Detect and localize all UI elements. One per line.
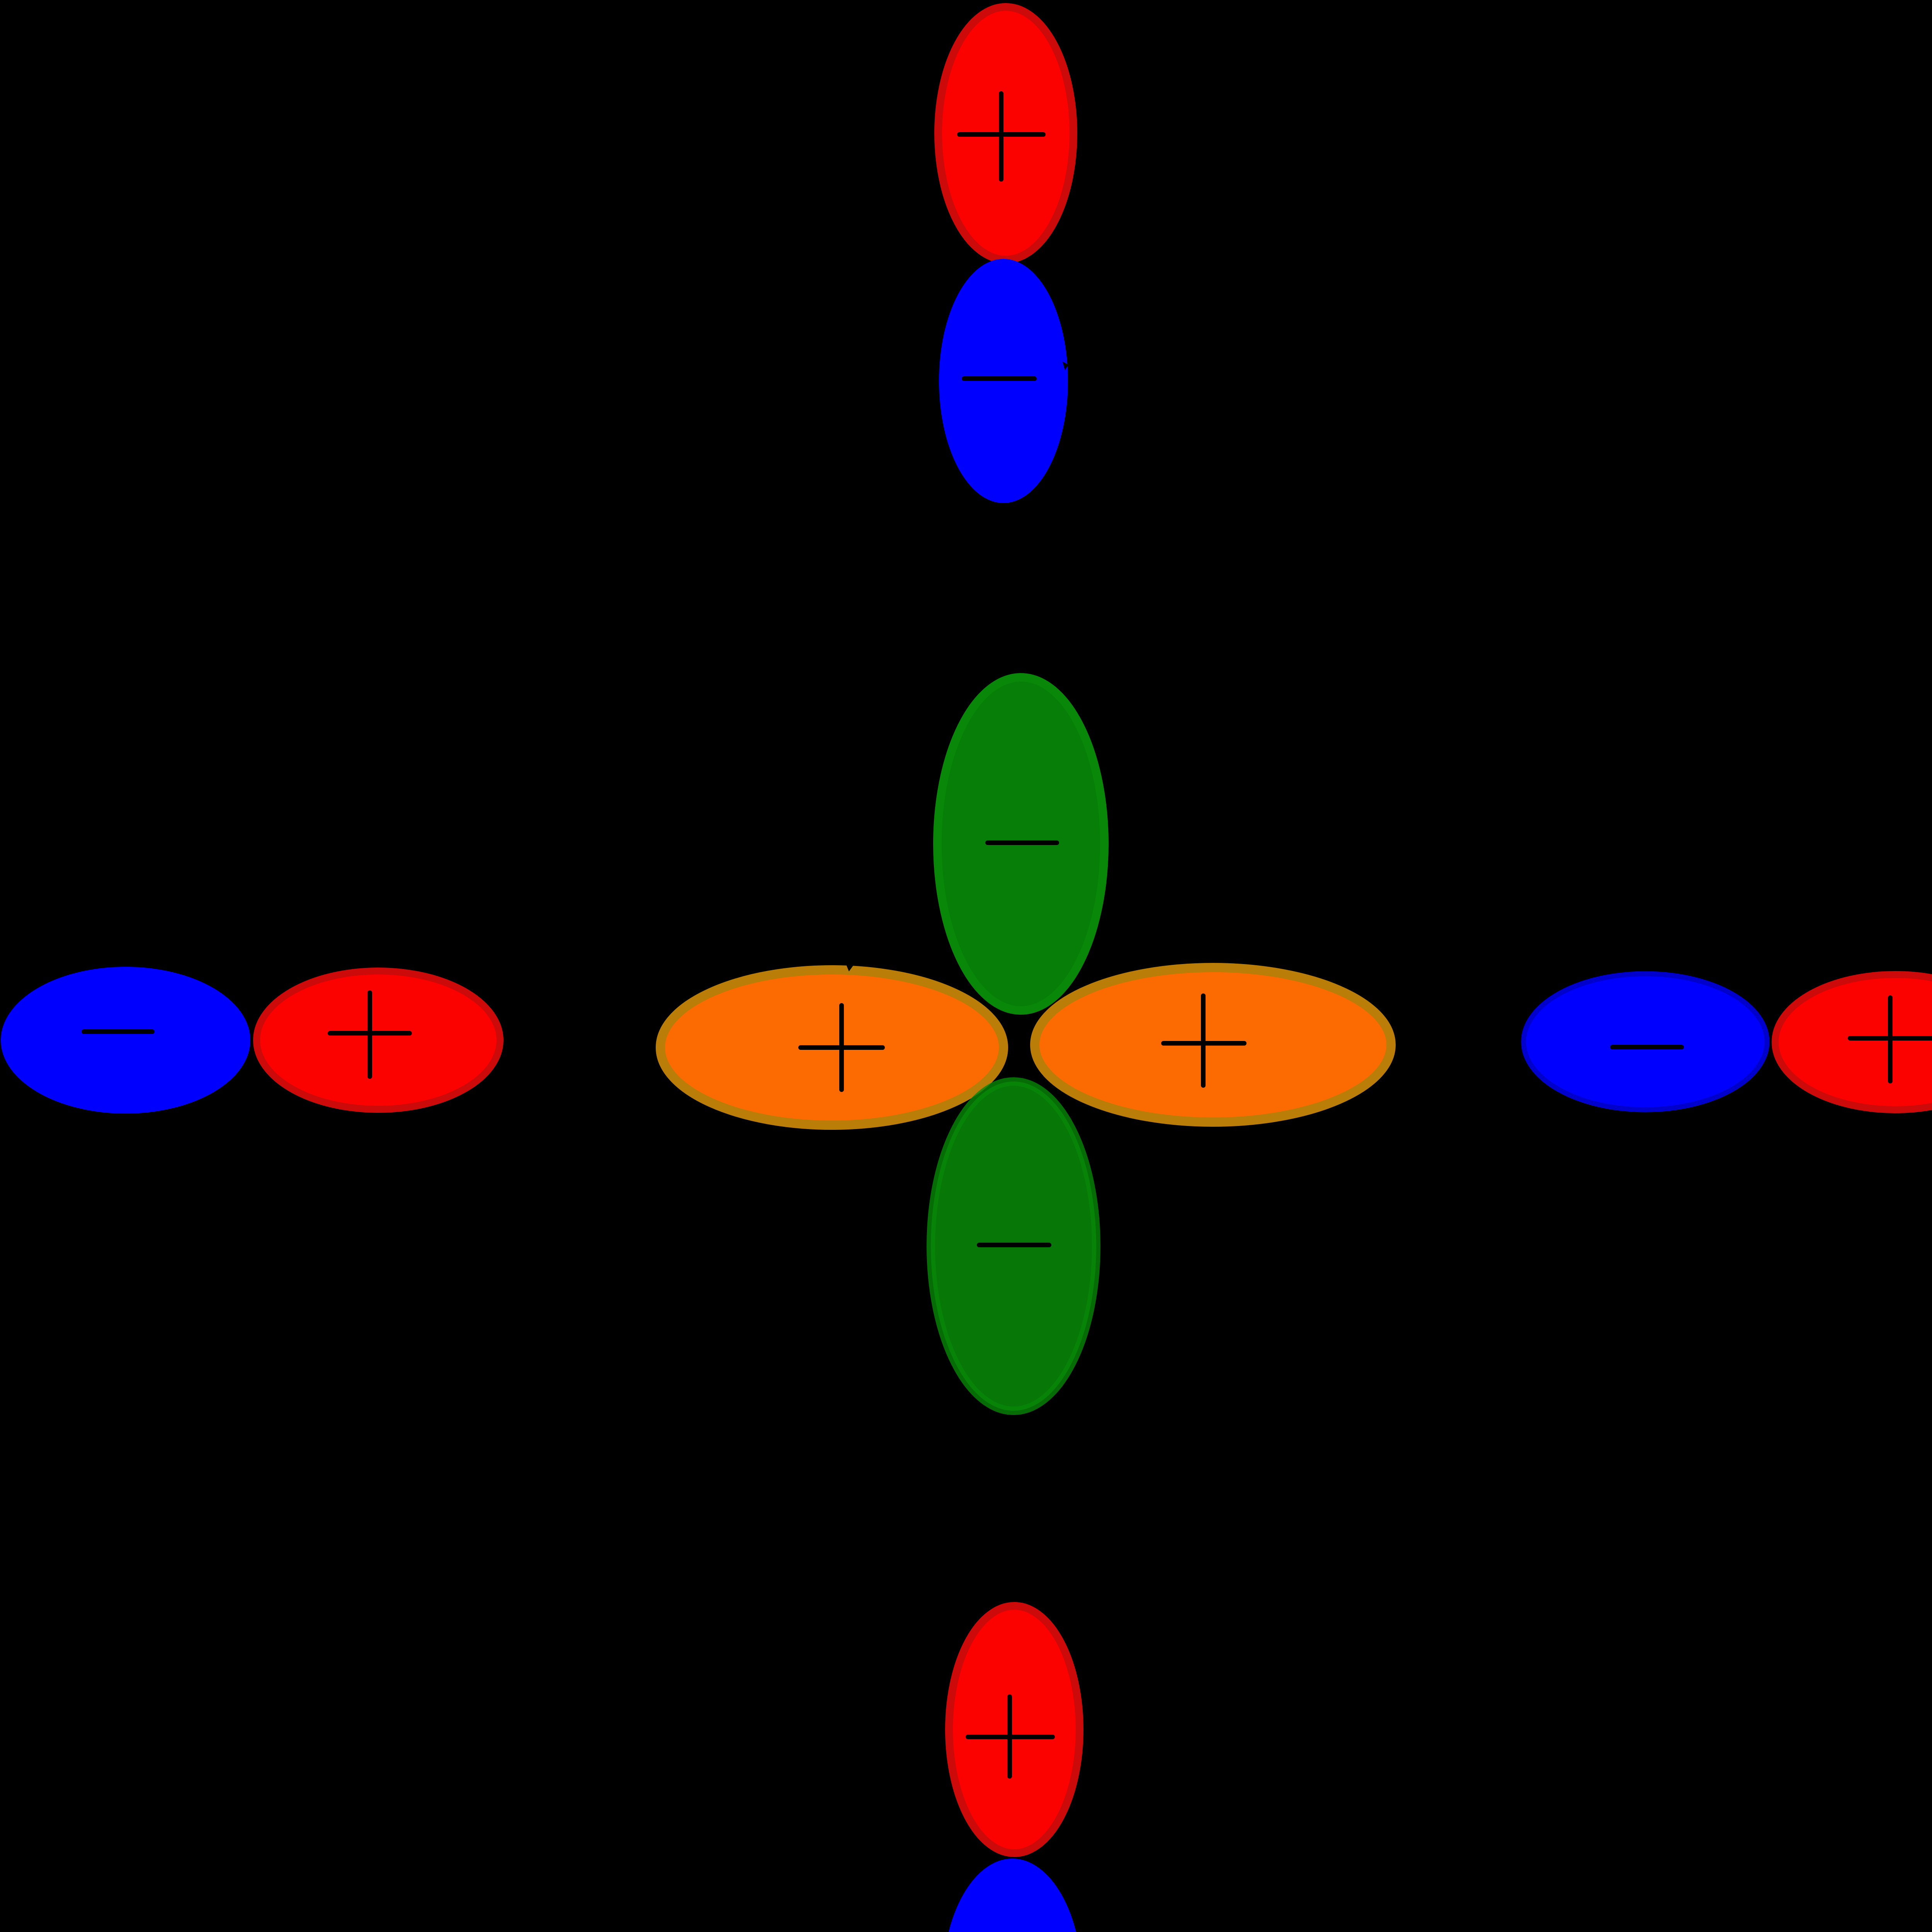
plus sign left red	[330, 993, 410, 1077]
p-orbital left: blue lobe (-)	[1, 967, 250, 1114]
d-orbital top green lobe (-)	[937, 677, 1104, 1010]
plus sign right orange	[1163, 996, 1244, 1085]
minus sign left blue	[84, 1029, 152, 1034]
d-orbital right orange lobe (+)	[1035, 968, 1391, 1122]
plus sign right red	[1850, 998, 1932, 1081]
arrowhead notch on top blue lobe	[1063, 362, 1068, 370]
minus sign top blue	[964, 376, 1034, 381]
arrowhead notch on left orange lobe	[845, 961, 855, 971]
p-orbital top: red lobe (+)	[938, 7, 1073, 260]
p-orbital top: blue lobe (-)	[939, 259, 1068, 503]
d-orbital bottom green lobe (-)	[931, 1082, 1096, 1411]
plus sign top red	[959, 94, 1043, 179]
plus sign left orange	[801, 1005, 883, 1090]
d-orbital left orange lobe (+)	[660, 970, 1003, 1125]
p-orbital bottom: blue lobe (-)	[942, 1859, 1082, 1932]
p-orbital right: red lobe (+)	[1775, 975, 1932, 1110]
plus sign bottom red	[968, 1697, 1053, 1776]
p-orbital right: blue lobe (-)	[1524, 974, 1767, 1110]
p-orbital left: red lobe (+)	[257, 971, 500, 1109]
minus sign right blue	[1612, 1045, 1682, 1049]
minus sign bottom green	[979, 1243, 1049, 1247]
p-orbital bottom: red lobe (+)	[949, 1606, 1080, 1853]
minus sign top green	[988, 840, 1057, 845]
